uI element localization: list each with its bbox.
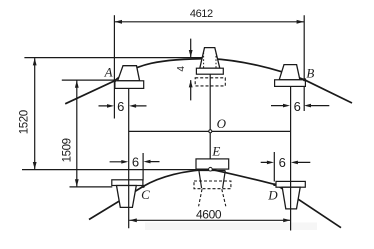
svg-text:6: 6: [279, 155, 286, 170]
arrowhead dim4 down: [189, 50, 193, 57]
arrowheads 6 at C: [121, 160, 128, 164]
arrowheads 6 at D: [267, 161, 274, 165]
svg-text:D: D: [267, 187, 278, 202]
arrowhead 1520 up: [33, 58, 37, 65]
point B: [303, 78, 306, 81]
clip B (trapezoid): [279, 65, 300, 80]
tangent reference line at arc crown (top): [24, 57, 202, 59]
point E (small open circle): [209, 167, 213, 171]
svg-text:B: B: [306, 66, 314, 81]
svg-text:A: A: [104, 65, 113, 80]
base plate top-center: [196, 68, 223, 74]
point A: [113, 79, 116, 82]
inner rail curve (bottom arc with straight tails through C and D): [89, 169, 341, 227]
point C: [142, 185, 145, 188]
svg-text:1509: 1509: [62, 138, 74, 162]
centerline through clips B and D: [290, 86, 292, 230]
extension line from A (4612 left): [113, 15, 115, 118]
dimension 4 leader lines: [190, 39, 192, 101]
dimension 1509 line: [76, 81, 78, 187]
plate E (rectangle at bottom arc crown): [196, 159, 229, 169]
svg-text:O: O: [217, 116, 227, 131]
point D: [273, 183, 276, 186]
clip E sides (inverted trapezoid, partly hidden): [199, 171, 225, 189]
base plate D: [276, 181, 305, 187]
extension line from B (4612 right): [303, 15, 305, 111]
clip top-center (trapezoid at arc crown): [200, 48, 220, 69]
reference line at C rail top (1509 lower ref): [70, 186, 113, 188]
svg-text:6: 6: [294, 99, 301, 114]
arrowhead 4612 left: [115, 20, 122, 24]
base plate C: [112, 180, 143, 186]
horizontal line through O: [129, 130, 291, 132]
arrowhead 4600 left: [129, 218, 136, 222]
svg-text:4612: 4612: [190, 8, 213, 20]
extension line from D point: [273, 152, 275, 182]
centerline through O (top clip to E): [209, 74, 211, 159]
arrowhead 4612 right: [297, 20, 304, 24]
dimension 6 arrows at C: [110, 161, 160, 163]
svg-text:C: C: [141, 187, 150, 202]
arrowhead dim4 up: [189, 80, 193, 87]
hidden legs below E (dashed): [199, 189, 226, 206]
hidden pad below top-center plate (dashed rect): [195, 78, 225, 86]
dimension 6 arrows at B: [271, 105, 329, 107]
svg-text:6: 6: [117, 99, 124, 114]
scan shadow band: [145, 223, 317, 231]
base plate A: [115, 81, 144, 89]
arrowheads 6 at B: [283, 104, 290, 108]
hidden pad at E (dashed rect): [194, 181, 231, 189]
dimension 6 arrows at A: [99, 105, 147, 107]
dimension 1520 line: [34, 58, 36, 169]
dimension 4612 line: [114, 21, 304, 23]
svg-text:E: E: [211, 144, 220, 159]
svg-text:1520: 1520: [18, 110, 30, 134]
dimension 4600 line: [129, 219, 291, 221]
clip D (inverted trapezoid): [282, 187, 300, 209]
svg-text:4: 4: [176, 66, 187, 72]
extension line from C point: [142, 153, 144, 181]
arrowhead 1509 down: [75, 179, 79, 186]
centerline through clips A and C: [128, 88, 130, 228]
arrowheads 6 at A: [107, 104, 114, 108]
arrowhead 4600 right: [283, 218, 290, 222]
outer rail curve (top arc with straight tails through A and B): [65, 59, 352, 104]
svg-text:6: 6: [132, 154, 139, 169]
chord reference line through A (left stub): [62, 79, 117, 81]
clip A (trapezoid): [118, 66, 140, 81]
dimension 6 arrows at D: [261, 161, 311, 163]
point O (small open circle): [209, 130, 212, 133]
svg-text:4600: 4600: [196, 208, 222, 222]
clip C (inverted trapezoid): [117, 186, 137, 208]
arrowhead 1509 up: [75, 80, 79, 87]
base plate B: [275, 80, 306, 87]
bottom reference line through E: [22, 169, 196, 171]
arrowhead 1520 down: [33, 162, 37, 169]
hidden edges inside top-center clip (dotted): [204, 53, 216, 68]
